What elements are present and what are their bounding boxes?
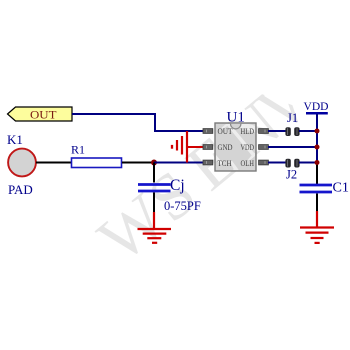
ground (below C1) [300, 211, 334, 243]
wire HLD to J1 [268, 130, 286, 132]
svg-text:VDD: VDD [304, 99, 329, 113]
wire J1 to VDD bus [299, 130, 317, 132]
node J2-bus [315, 160, 320, 165]
svg-text:HLD: HLD [241, 127, 255, 136]
wire C1 to ground [316, 194, 318, 213]
wire OUT flag to U1 pin OUT [72, 114, 204, 131]
capacitor C1 [300, 181, 350, 196]
wire junction to Cj [153, 163, 155, 183]
port OUT flag [8, 107, 73, 122]
ground (rotated, at U1 pin GND) [172, 131, 205, 163]
wire PAD to R1 [36, 162, 71, 164]
svg-text:PAD: PAD [8, 183, 33, 197]
svg-text:C1: C1 [333, 181, 350, 196]
svg-text:0-75PF: 0-75PF [164, 199, 201, 213]
resistor R1 [71, 143, 122, 168]
wire Cj to ground [153, 193, 155, 214]
svg-text:TCH: TCH [218, 159, 232, 168]
wire VDD pin to bus [268, 146, 317, 148]
pin 3 TCH [203, 159, 232, 168]
pin 1 OUT [203, 127, 233, 136]
wire R1 to junction [122, 162, 154, 164]
ground (below Cj) [138, 212, 172, 243]
power VDD [304, 99, 329, 113]
pad K1 [7, 132, 36, 197]
svg-text:OUT: OUT [218, 127, 233, 136]
svg-text:GND: GND [218, 143, 233, 152]
svg-text:K1: K1 [7, 132, 23, 147]
wire VDD bus [316, 114, 318, 164]
wire J2 to VDD bus [299, 162, 317, 164]
wire OLH to J2 [268, 162, 286, 164]
svg-text:Cj: Cj [170, 177, 185, 194]
node J1-bus [315, 129, 320, 134]
jumper J2 [285, 159, 299, 182]
svg-text:VDD: VDD [241, 143, 255, 152]
pin 2 GND [203, 143, 233, 152]
wire bus to C1 [316, 164, 318, 184]
node VDD-bus [315, 145, 320, 150]
pin 5 VDD [241, 143, 269, 152]
pin 6 HLD [241, 127, 269, 136]
jumper J1 [285, 111, 299, 136]
svg-text:J2: J2 [286, 168, 297, 182]
svg-text:OUT: OUT [30, 110, 57, 122]
op-amp U1 (touch IC) [174, 87, 294, 204]
svg-text:R1: R1 [71, 143, 85, 157]
svg-text:J1: J1 [287, 111, 298, 125]
junction node A [151, 160, 157, 166]
capacitor Cj [138, 177, 201, 213]
wire junction to U1 pin TCH [154, 162, 204, 164]
svg-text:OLH: OLH [241, 159, 255, 168]
pin 4 OLH [241, 159, 269, 168]
